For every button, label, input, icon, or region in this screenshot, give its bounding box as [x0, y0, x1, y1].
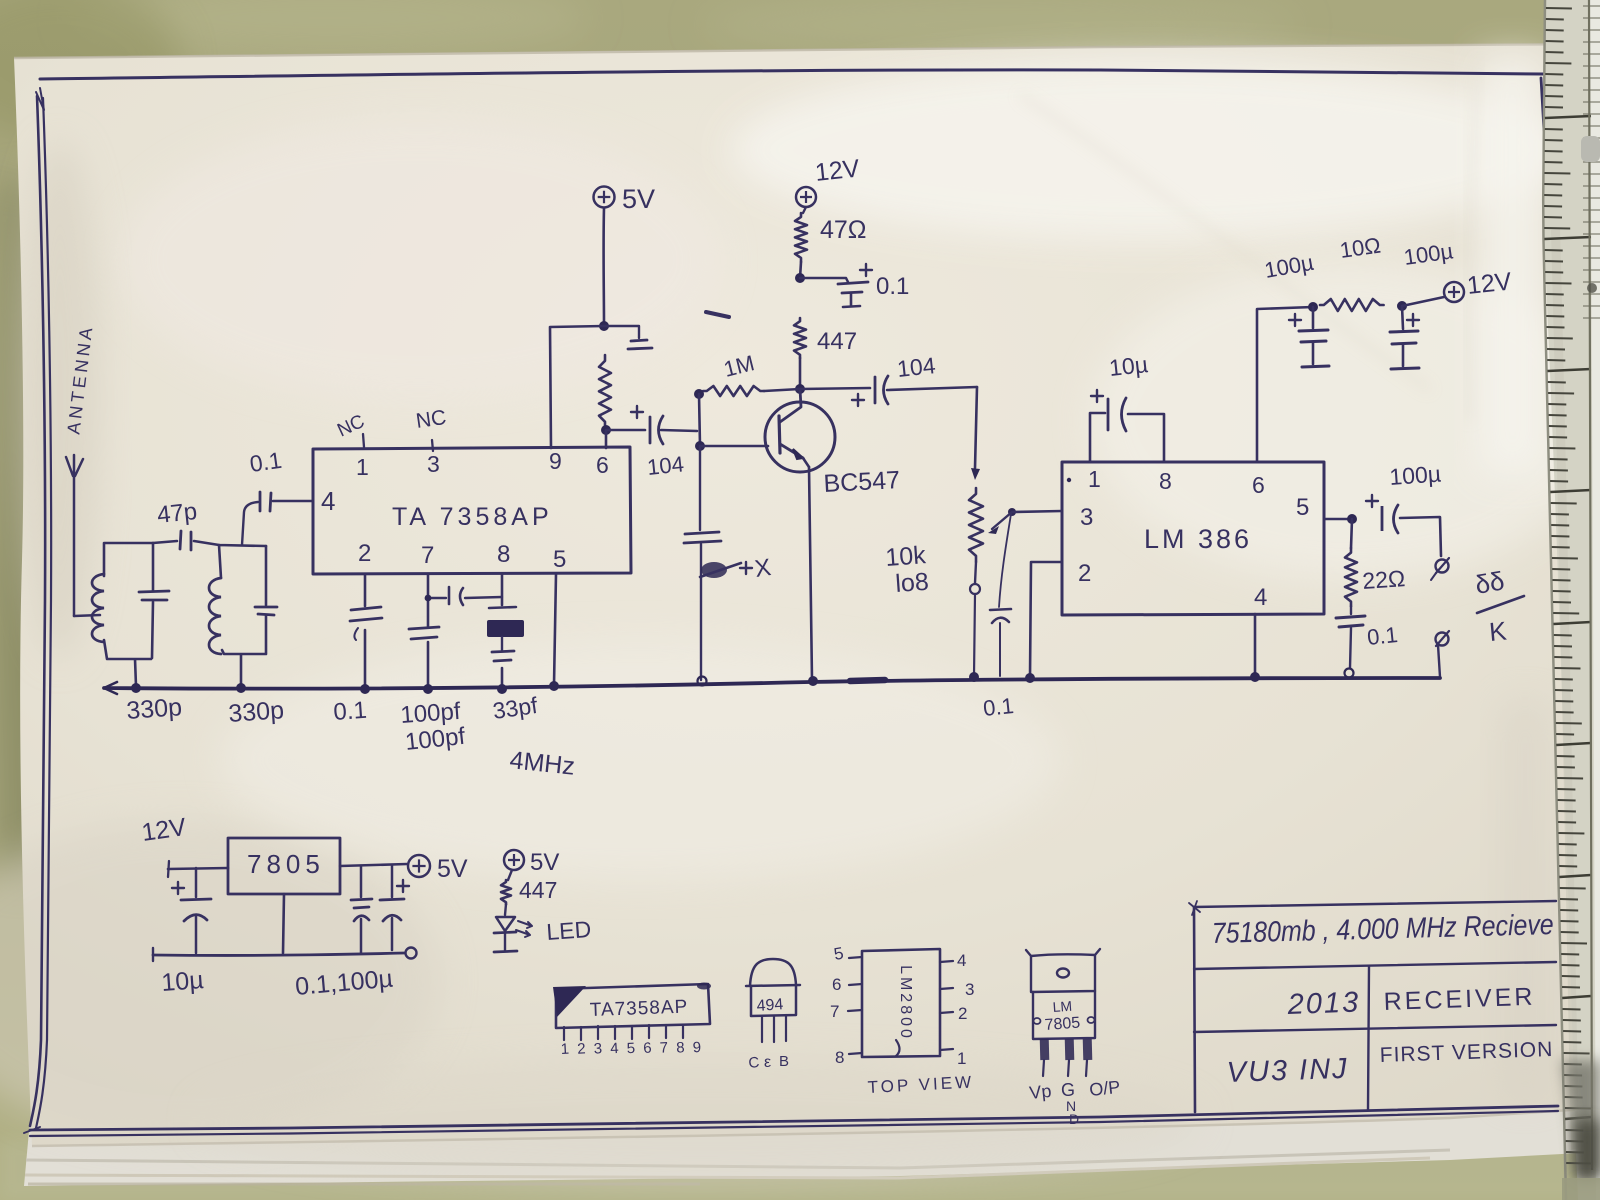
svg-text:5: 5: [553, 546, 566, 573]
node collector supply: [795, 273, 805, 283]
label log VR1: [894, 568, 929, 598]
svg-text:7: 7: [659, 1039, 668, 1056]
wire wiper to C13: [999, 514, 1011, 607]
label 447 R3: [817, 328, 857, 355]
node pin5 gnd: [549, 681, 559, 691]
resistor R7 447: [501, 880, 511, 904]
node pin8 gnd: [497, 684, 507, 694]
svg-text:8: 8: [1159, 468, 1172, 494]
wire R3 to collector node: [799, 358, 802, 388]
svg-text:δδ: δδ: [1473, 565, 1507, 600]
ground rail regulator: [153, 948, 404, 961]
svg-text:5V: 5V: [622, 184, 655, 214]
node pin5: [1347, 514, 1357, 524]
label 104 C12: [896, 352, 937, 382]
wire R1 to pin6: [605, 430, 608, 448]
inductor L2: [209, 578, 221, 654]
U1 package pin numbers: [560, 1039, 701, 1058]
svg-text:B: B: [779, 1053, 789, 1070]
svg-text:2: 2: [358, 540, 371, 567]
node emitter gnd: [808, 676, 818, 686]
node pin2 gnd: [1025, 673, 1035, 683]
svg-text:0.1: 0.1: [1366, 622, 1399, 650]
svg-text:2: 2: [958, 1004, 967, 1023]
transistor package 494: [746, 959, 800, 1042]
resistor R1 pin6 bias: [599, 355, 611, 428]
power 12V right symbol: [1444, 267, 1513, 302]
svg-text:0.1: 0.1: [982, 693, 1015, 721]
node C11 gnd: [698, 677, 707, 686]
svg-text:1: 1: [560, 1041, 569, 1058]
capacitor C19 10u input: [172, 868, 211, 953]
capacitor C15 100u: [1289, 307, 1329, 367]
svg-text:330p: 330p: [227, 696, 284, 728]
capacitor C1 330p: [139, 543, 169, 658]
wire tank2 top: [219, 545, 266, 578]
title text line1: [1211, 909, 1554, 950]
svg-text:0.1: 0.1: [248, 447, 283, 477]
node base top: [694, 389, 704, 399]
wire pin5 out: [1324, 518, 1352, 521]
capacitor C9 104 input coupling: [606, 406, 697, 444]
title block frame: [1189, 901, 1556, 1112]
svg-text:8: 8: [497, 541, 510, 568]
LM2800 left pins: [830, 944, 862, 1067]
label 0.1 C5: [333, 697, 368, 726]
svg-text:2: 2: [1078, 560, 1091, 587]
svg-text:LM: LM: [1052, 998, 1073, 1015]
wire R2 to node: [800, 262, 801, 278]
op-amp U1 TA7358AP box: [313, 447, 631, 574]
node pin4 gnd: [1250, 672, 1260, 682]
power 12V symbol: [796, 154, 861, 207]
svg-text:5V: 5V: [530, 849, 559, 876]
svg-text:NC: NC: [414, 406, 447, 433]
node C18 gnd: [1345, 669, 1354, 678]
svg-text:1: 1: [957, 1049, 966, 1068]
svg-text:0.1: 0.1: [333, 697, 368, 726]
package U1 TA7358AP outline: [553, 983, 711, 1029]
svg-text:47p: 47p: [156, 498, 199, 529]
svg-text:9: 9: [549, 448, 562, 474]
pin 8 label: [497, 541, 510, 568]
regulator U3 7805 box: [228, 838, 340, 894]
svg-text:ε: ε: [764, 1054, 771, 1071]
resistor R3 447: [794, 318, 806, 358]
svg-text:447: 447: [817, 328, 857, 355]
label 100u C16: [1402, 238, 1455, 270]
U2 dot pin1: [1067, 478, 1071, 482]
regulator package LM7805 tab: [1026, 949, 1100, 992]
svg-text:7805: 7805: [1044, 1015, 1081, 1034]
pin 7 label: [421, 542, 434, 569]
svg-text:104: 104: [646, 451, 685, 480]
label 7805: [247, 849, 325, 879]
wire emitter down: [809, 467, 812, 680]
ground bus wire: [104, 678, 1440, 694]
label CEB package: [748, 1053, 789, 1072]
label 104 C9: [646, 451, 685, 480]
label C11 scribble 0.1X: [700, 554, 773, 583]
svg-text:K: K: [1488, 616, 1509, 647]
svg-text:3: 3: [965, 980, 974, 999]
label 330p C1: [125, 693, 182, 725]
wire 5V down: [602, 208, 605, 326]
wire pin4 gnd: [1254, 614, 1257, 676]
speaker terminal upper: [1431, 558, 1449, 580]
wiper of VR1: [988, 508, 1016, 534]
wire tank1 bottom: [104, 640, 151, 686]
label 100u C17: [1389, 460, 1442, 490]
label 47ohm R2: [820, 216, 867, 244]
terminal regulator gnd: [406, 948, 417, 959]
svg-text:8: 8: [676, 1039, 685, 1056]
svg-text:47Ω: 47Ω: [820, 216, 867, 244]
pin 9 label: [549, 448, 562, 474]
svg-text:Vp: Vp: [1028, 1081, 1052, 1103]
wire pin3 in: [1013, 511, 1062, 512]
transistor Q1 internals: [779, 389, 809, 467]
U2 pin4 label: [1254, 584, 1267, 611]
LM7805 pin labels: [1028, 1077, 1121, 1127]
svg-text:0.1: 0.1: [876, 273, 909, 300]
node filter left: [1308, 302, 1318, 312]
IC package LM2800 top view: [862, 949, 940, 1057]
node tank1 ground: [131, 683, 141, 693]
capacitor C12 104 output coupling: [800, 376, 977, 406]
power 5V LED branch: [504, 849, 559, 876]
node VR1 gnd: [969, 672, 979, 682]
label 47p C2: [156, 498, 199, 529]
svg-text:LM2800: LM2800: [897, 965, 914, 1041]
resistor R2 47ohm: [795, 207, 807, 262]
svg-text:7805: 7805: [247, 849, 325, 879]
U2 pin5 label: [1296, 494, 1309, 521]
wire base to Q1: [700, 445, 768, 448]
label 0.1 C13: [982, 693, 1015, 721]
label 0.1 under bus: [0, 0, 1, 1]
node pin6 junction: [601, 425, 611, 435]
capacitor C18 0.1: [1336, 606, 1365, 668]
pin 1 label: [356, 454, 369, 480]
svg-text:6: 6: [643, 1040, 652, 1057]
capacitor C3 330p: [255, 546, 277, 653]
svg-text:104: 104: [896, 352, 937, 382]
svg-text:6: 6: [1252, 472, 1265, 498]
border frame top line: [40, 70, 1543, 79]
label 0.1 C18: [1366, 622, 1399, 650]
svg-text:9: 9: [692, 1039, 701, 1056]
svg-text:6: 6: [596, 452, 609, 478]
label 4MHz: [508, 746, 576, 781]
border frame left double line: [30, 88, 51, 1128]
title text 2013: [1286, 986, 1361, 1021]
LM7805 legs: [1040, 1039, 1093, 1076]
capacitor C5 0.1: [350, 607, 382, 640]
U2 pin3 label: [1080, 504, 1093, 531]
svg-text:lo8: lo8: [894, 568, 929, 598]
label 0.1 100u: [294, 965, 394, 1001]
svg-text:D: D: [1069, 1111, 1079, 1127]
border frame right line segment: [1541, 78, 1544, 130]
wire base column: [699, 394, 700, 446]
label 10u C19: [160, 966, 204, 997]
svg-text:G: G: [1061, 1080, 1075, 1100]
label 100pf C6b: [404, 723, 467, 756]
label 447 R7: [519, 877, 557, 903]
svg-text:4: 4: [610, 1040, 619, 1057]
label 0.1 C4: [248, 447, 283, 477]
svg-text:BC547: BC547: [823, 466, 901, 498]
svg-text:6: 6: [832, 975, 841, 994]
capacitor C10 0.1 decoupling: [800, 264, 872, 307]
capacitor C20 0.1 output: [351, 866, 372, 953]
wire L1 top to C1: [104, 543, 153, 576]
node 5V junction: [599, 321, 609, 331]
label LM386: [1144, 524, 1252, 554]
label TA7358AP: [392, 503, 553, 531]
U2 pin2 label: [1078, 560, 1091, 587]
label BC547 Q1: [823, 466, 901, 498]
svg-text:5: 5: [1296, 494, 1309, 521]
U2 pin8 label: [1159, 468, 1172, 494]
node tank2 ground: [236, 683, 246, 693]
svg-text:5V: 5V: [437, 855, 468, 883]
wire 7805 input: [168, 861, 228, 877]
pin 3 label: [427, 451, 440, 477]
label 10k VR1: [884, 541, 927, 572]
NC mark pin1: [334, 411, 368, 447]
svg-text:447: 447: [519, 877, 557, 903]
capacitor C13 0.1 to gnd: [990, 609, 1011, 676]
U2 pin6 label: [1252, 472, 1265, 498]
label LED D1: [546, 916, 592, 945]
LM2800 right pins: [940, 951, 974, 1068]
capacitor C4 0.1: [242, 492, 313, 545]
label 100u C15: [1263, 250, 1316, 283]
power 5V regulator out: [408, 855, 468, 883]
inductor L1: [92, 574, 104, 642]
svg-text:LED: LED: [546, 916, 592, 945]
svg-text:O/P: O/P: [1088, 1077, 1121, 1100]
svg-text:1: 1: [1088, 466, 1101, 492]
svg-text:7: 7: [421, 542, 434, 569]
svg-text:3: 3: [427, 451, 440, 477]
resistor R4 1M feedback: [703, 386, 800, 396]
label 1M R4: [721, 350, 757, 382]
wire pin7 down: [427, 574, 430, 688]
wire 7805 output: [340, 864, 407, 866]
pin 5 label: [553, 546, 566, 573]
title text VU3INJ: [1226, 1053, 1349, 1089]
svg-text:8: 8: [835, 1048, 844, 1067]
power 5V symbol: [594, 184, 656, 214]
capacitor C16 100u: [1390, 306, 1419, 369]
title text RECEIVER: [1383, 983, 1536, 1016]
capacitor C7 between pins 7 and 8: [425, 587, 502, 605]
label 33pf: [491, 692, 540, 724]
svg-text:3: 3: [593, 1040, 602, 1057]
svg-text:5: 5: [626, 1040, 635, 1057]
node collector: [795, 384, 805, 394]
wire 7805 gnd: [283, 894, 284, 953]
capacitor C21 100u output: [380, 865, 409, 950]
speaker terminal lower: [1436, 631, 1450, 677]
label 0.1 C10: [876, 273, 909, 300]
wire 5V to R7: [508, 870, 512, 880]
node pin7 gnd: [423, 684, 433, 694]
op-amp U2 LM386 box: [1062, 462, 1324, 615]
capacitor C6 100pf: [409, 627, 439, 639]
resistor R6 22ohm: [1345, 519, 1357, 606]
label 10ohm R5: [1338, 232, 1382, 262]
LED D1: [494, 904, 532, 952]
svg-text:TA7358AP: TA7358AP: [589, 997, 688, 1021]
label TOP VIEW: [867, 1072, 974, 1097]
crystal X1 4MHz: [487, 607, 524, 661]
capacitor C8 at 5V rail: [604, 326, 652, 349]
capacitor C11 base bypass: [684, 446, 721, 680]
antenna symbol: [66, 455, 100, 616]
svg-text:4: 4: [1254, 584, 1267, 611]
transistor Q1 BC547 circle: [765, 402, 835, 472]
svg-text:10µ: 10µ: [1108, 351, 1149, 381]
title text FIRST VERSION: [1379, 1038, 1553, 1067]
svg-text:330p: 330p: [125, 693, 182, 725]
svg-text:10µ: 10µ: [160, 966, 204, 997]
svg-text:3: 3: [1080, 504, 1093, 531]
pin 4 label: [321, 486, 335, 516]
U1 package pins: [564, 1025, 683, 1040]
svg-text:1: 1: [356, 454, 369, 480]
svg-text:2: 2: [577, 1040, 586, 1057]
regulator package LM7805 body: [1033, 991, 1095, 1039]
label TA7358AP package: [589, 997, 688, 1021]
wire pin6 supply: [1257, 307, 1313, 462]
label 100pf C6: [400, 698, 462, 729]
svg-text:2013: 2013: [1286, 986, 1361, 1021]
capacitor C17 100u output: [1366, 495, 1441, 556]
label 330p C3: [227, 696, 284, 728]
wire pin8 down: [501, 574, 504, 688]
svg-text:TA 7358AP: TA 7358AP: [392, 503, 553, 531]
U2 pin1 label: [1088, 466, 1101, 492]
svg-text:22Ω: 22Ω: [1362, 565, 1406, 594]
svg-text:4: 4: [321, 486, 335, 516]
node pin2 gnd: [360, 684, 370, 694]
wire pin5 down: [554, 574, 556, 685]
resistor R5 10ohm: [1320, 299, 1384, 311]
label 22ohm R6: [1362, 565, 1406, 594]
node filter right: [1397, 301, 1407, 311]
svg-text:494: 494: [756, 996, 784, 1015]
label 12V regulator input: [140, 813, 188, 847]
antenna label ANTENNA: [63, 323, 96, 435]
pin 6 label: [596, 452, 609, 478]
wire C12 down to pot: [971, 387, 980, 480]
wire to 12V: [1402, 297, 1444, 306]
label 10u C14: [1108, 351, 1149, 381]
svg-text:RECEIVER: RECEIVER: [1383, 983, 1536, 1016]
stray ink dash: [706, 312, 729, 317]
wire tank2 bottom: [222, 650, 266, 686]
svg-text:VU3 INJ: VU3 INJ: [1226, 1053, 1349, 1089]
svg-text:LM 386: LM 386: [1144, 524, 1252, 554]
svg-text:4: 4: [957, 951, 966, 970]
label 8ohm speaker: [1473, 565, 1524, 647]
NC mark pin3: [414, 406, 447, 451]
svg-text:12V: 12V: [1466, 267, 1513, 300]
svg-text:100µ: 100µ: [1389, 460, 1442, 490]
capacitor C14 10u pins1-8: [1090, 390, 1164, 462]
wire 5V to pin9: [550, 326, 604, 448]
pin 2 label: [358, 540, 371, 567]
wire pin2 down: [364, 574, 367, 688]
svg-text:7: 7: [830, 1002, 839, 1021]
border frame bottom double line: [24, 1106, 1558, 1136]
svg-text:12V: 12V: [814, 154, 861, 187]
svg-text:C: C: [748, 1054, 761, 1072]
potentiometer VR1 10k: [969, 488, 983, 676]
capacitor C2 47p: [153, 531, 219, 550]
wire pin2 gnd: [1030, 562, 1062, 677]
node base: [695, 441, 705, 451]
